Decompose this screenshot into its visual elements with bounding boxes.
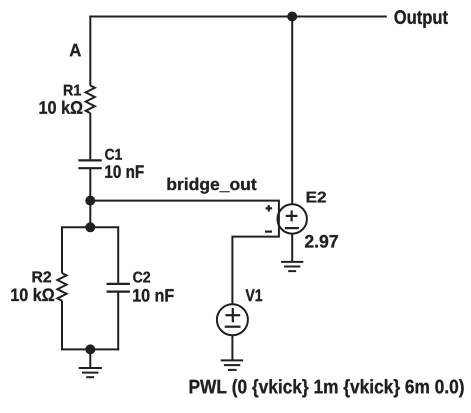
wire output junction down to E2 bbox=[291, 17, 293, 205]
label V1 bbox=[246, 289, 263, 301]
wire bridge_out node down to RC junction bbox=[89, 201, 91, 228]
value label 2.97 of E2 bbox=[305, 235, 338, 248]
V1 minus symbol inside bbox=[225, 326, 241, 328]
resistor R1 bbox=[86, 86, 95, 114]
label R1 bbox=[64, 85, 81, 96]
value label PWL of V1 bbox=[190, 379, 464, 397]
wire E2 to ground bbox=[291, 234, 293, 262]
wire C2 bottom bbox=[117, 292, 119, 351]
wire R1 to C1 bbox=[89, 113, 91, 159]
label Output bbox=[394, 10, 447, 28]
capacitor C1 bbox=[78, 160, 101, 168]
value label 10 nF of C1 bbox=[105, 165, 143, 178]
wire RC top rail with branches bbox=[62, 227, 118, 283]
E2 control plus pin label bbox=[266, 205, 273, 211]
wire node A vertical down to R1 bbox=[89, 16, 91, 86]
wire R2 bottom bbox=[61, 301, 63, 351]
label E2 bbox=[307, 192, 326, 203]
node label bridge_out bbox=[167, 178, 256, 194]
node dot RC top junction bbox=[85, 222, 95, 232]
label R2 bbox=[33, 271, 52, 282]
wire top rail to Output bbox=[89, 16, 387, 18]
wire RC bottom rail bbox=[61, 348, 119, 350]
node dot RC bottom junction bbox=[85, 344, 95, 354]
E2 control minus pin label bbox=[265, 231, 272, 233]
ground below E2 bbox=[281, 262, 303, 271]
resistor R2 bbox=[57, 273, 66, 301]
label C1 bbox=[105, 149, 122, 160]
controlled source E2 circle bbox=[278, 204, 307, 233]
V1 plus symbol inside bbox=[225, 308, 240, 322]
ground below R2 C2 bbox=[79, 368, 102, 377]
wire bridge_out to E2 control input and down to V1 bbox=[90, 201, 279, 305]
label C2 bbox=[133, 272, 150, 283]
wire C1 to bridge_out node bbox=[89, 168, 91, 200]
value label 10 kOhm of R2 bbox=[11, 288, 54, 301]
ground below V1 bbox=[221, 360, 243, 370]
wire ground stem below RC bbox=[89, 349, 91, 368]
capacitor C2 bbox=[107, 284, 130, 292]
value label 10 kOhm of R1 bbox=[40, 101, 83, 114]
voltage source V1 circle bbox=[217, 304, 248, 335]
wire V1 to ground bbox=[231, 335, 233, 360]
E2 minus symbol inside bbox=[285, 227, 299, 229]
E2 plus symbol inside bbox=[286, 210, 298, 221]
value label 10 nF of C2 bbox=[133, 289, 173, 302]
node label A bbox=[70, 44, 81, 56]
node dot bridge_out bbox=[85, 196, 95, 206]
node dot output rail junction bbox=[287, 12, 297, 22]
